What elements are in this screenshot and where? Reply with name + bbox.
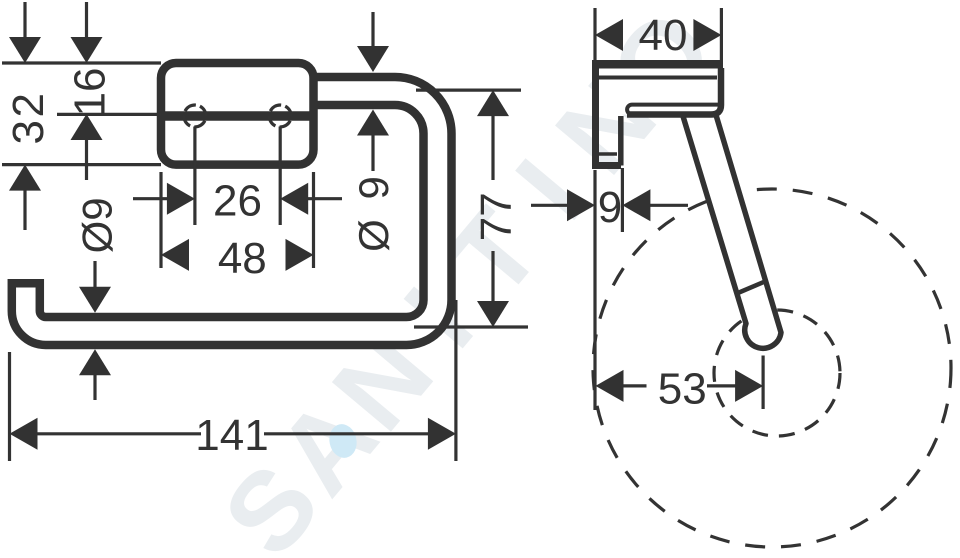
svg-text:40: 40 xyxy=(639,11,688,60)
svg-text:26: 26 xyxy=(213,177,262,226)
svg-text:53: 53 xyxy=(658,364,707,413)
svg-text:32: 32 xyxy=(4,91,53,145)
svg-text:141: 141 xyxy=(195,411,268,460)
svg-text:Ø 9: Ø 9 xyxy=(350,172,397,252)
svg-text:Ø9: Ø9 xyxy=(74,197,121,253)
svg-text:48: 48 xyxy=(218,234,267,283)
svg-text:77: 77 xyxy=(472,192,521,241)
svg-text:9: 9 xyxy=(598,183,622,232)
svg-text:16: 16 xyxy=(66,68,115,117)
